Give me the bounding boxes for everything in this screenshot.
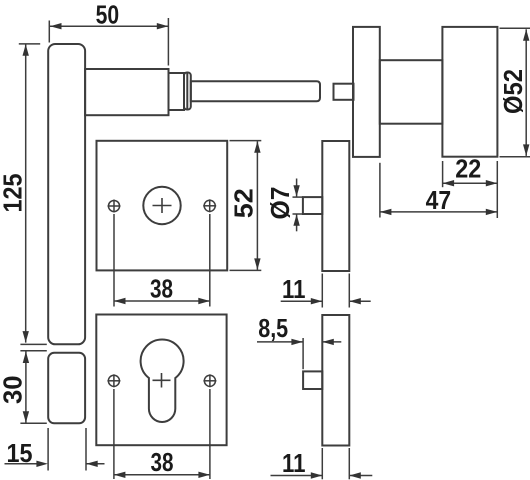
handle lever bar upper [48,44,85,344]
svg-text:38: 38 [151,447,174,477]
handle neck smaller step [169,73,185,110]
svg-text:30: 30 [0,375,27,404]
dim 15 leader/tails [5,463,37,465]
dim 50 extension lines [48,21,50,43]
arrowheads dim 11 B [311,472,323,478]
euro profile cylinder cutout [141,340,184,422]
knob cylinder [442,27,497,157]
svg-text:47: 47 [426,185,452,215]
svg-text:Ø7: Ø7 [265,187,295,220]
screw A left [108,200,119,211]
dim 38 A extension lines [113,214,115,307]
svg-text:38: 38 [150,273,173,303]
arrowheads dim 47 [380,209,392,215]
dim 125 ticks [19,43,40,45]
euro cylinder cross [153,379,171,381]
dim 15 extension lines [47,428,49,471]
stub 8.5 on narrow rose B [303,371,322,389]
svg-text:52: 52 [228,188,258,218]
svg-text:125: 125 [0,174,27,213]
dim 30 line [25,352,27,423]
arrowheads dim 50 [50,23,62,29]
dim 47 line [380,211,497,213]
knob neck [380,60,443,123]
dim Ø7 ticks [293,196,304,198]
dim 50 line [50,25,168,27]
dim 11 A tails [281,300,323,302]
handle lever bar lower segment [48,353,85,424]
rose A center cross [153,205,172,207]
dim Ø52 extension lines [500,27,530,29]
arrowheads dim 22 [443,180,455,186]
stub Ø7 on narrow rose A [303,197,322,214]
svg-text:8,5: 8,5 [258,313,288,343]
knob rose side view [353,27,380,157]
narrow rose A side view [322,141,349,271]
screw A right [204,200,215,211]
arrowheads dim 38 B [114,472,126,478]
dim 11 B extension lines [321,448,323,479]
arrowheads dim 8,5 [291,339,303,345]
dim 52 extension lines [230,140,262,142]
arrowheads dim Ø52 [523,29,529,41]
screw B left [108,375,119,386]
svg-text:22: 22 [455,154,481,184]
handle neck block [85,69,168,115]
dim 52 line [256,141,258,270]
svg-text:11: 11 [282,448,306,478]
rose A hub circle [143,187,180,224]
square rose B front view [96,315,226,446]
arrowheads dim 125 [23,44,29,56]
arrowheads dim 52 [254,141,260,153]
svg-text:15: 15 [7,438,33,468]
handle collar inner line [186,73,188,109]
dim 22 extension line [442,161,444,187]
dim 38 B extension lines [113,389,115,479]
svg-text:50: 50 [96,0,120,29]
svg-text:11: 11 [282,274,306,304]
arrowheads dim 38 A [114,298,126,304]
handle collar ring [184,73,191,110]
square rose A front view [97,141,228,271]
arrowheads dim 11 A [311,298,323,304]
dim 11 A extension lines [321,274,323,308]
narrow rose B side view [322,315,349,446]
svg-text:Ø52: Ø52 [498,69,528,114]
dim 38 B line [114,474,210,476]
dim Ø7 arrow tails [296,179,298,197]
arrowheads dim 30 [23,352,29,364]
dim 8,5 extension line [302,338,304,369]
dim 47 extension line [379,163,381,218]
dim 11 B tails [271,475,323,477]
arrowheads dim Ø7 [293,185,299,197]
dim 125 line (broken for text) [25,44,27,342]
dim 22 line [443,182,498,184]
arrowheads dim 15 [36,461,48,467]
spindle stub at knob rose [334,84,354,100]
dim 8,5 tails [257,341,303,343]
dim Ø52 line [525,29,527,156]
dim 30 ticks [20,350,46,352]
dim 38 A line [114,300,210,302]
handle spindle [191,81,320,101]
screw B right [204,375,215,386]
